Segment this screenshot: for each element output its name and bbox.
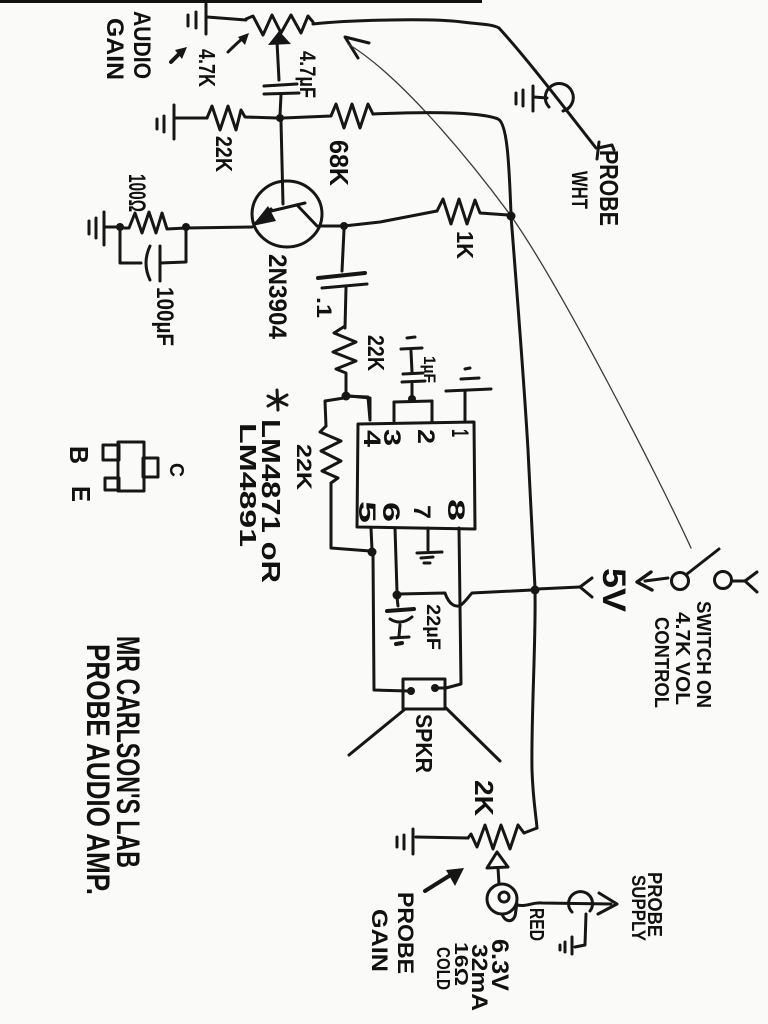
wire J6 to 22K feedback (325, 398, 344, 426)
transistor package TO92 outline (103, 442, 158, 491)
hook tail to ground (575, 914, 586, 947)
svg-text:3: 3 (378, 429, 405, 446)
connector hook H1 probe wht (545, 84, 573, 111)
resistor R4 100ohm (120, 212, 186, 233)
svg-text:2K: 2K (469, 780, 499, 816)
node J5 bus top (507, 212, 516, 221)
resistor R6 22K vertical (333, 326, 356, 393)
wiper arrow of 2K pot (487, 852, 508, 868)
wire 68K to bus corner (373, 113, 511, 214)
potentiometer R1 4.7K (246, 15, 313, 35)
svg-text:E: E (66, 486, 96, 502)
capacitor C1 4.7uF (264, 84, 299, 115)
ground G8 below 22uF (391, 637, 409, 644)
wire emitter (186, 227, 252, 228)
wire 22K to J7 (331, 483, 370, 551)
wire pot to probe (313, 20, 499, 28)
node B base node (276, 114, 284, 122)
fork connector supply (745, 572, 757, 592)
pin 8 lead to speaker (438, 528, 461, 688)
svg-text:AUDIO: AUDIO (128, 11, 155, 79)
svg-text:RED: RED (525, 908, 547, 941)
svg-text:22K: 22K (363, 335, 389, 371)
svg-text:100Ω: 100Ω (123, 174, 150, 212)
node J7 pin5 junction (368, 548, 377, 557)
svg-text:LM4891: LM4891 (235, 423, 261, 547)
svg-text:4.7K: 4.7K (194, 49, 220, 87)
wire J10 to 5V fork (537, 587, 580, 589)
IC U1 LM4871 body (357, 422, 475, 529)
node emitter-left (116, 223, 124, 231)
wire J6 to pin4 (346, 396, 370, 420)
transistor Q1 2N3904 (252, 121, 322, 247)
svg-text:1: 1 (446, 429, 473, 437)
svg-text:GAIN: GAIN (101, 18, 128, 80)
wire to probe supply arrow (517, 903, 611, 906)
node J10 bus (531, 586, 540, 595)
pin 4 lead (349, 396, 370, 420)
node J8 (408, 395, 416, 403)
svg-text:100µF: 100µF (151, 287, 178, 346)
switch lever (687, 549, 719, 574)
svg-text:22K: 22K (211, 136, 237, 172)
wire pin3-pin2 bridge (394, 401, 432, 402)
svg-text:GAIN: GAIN (367, 909, 392, 972)
svg-text:5: 5 (353, 501, 380, 523)
svg-text:7: 7 (408, 505, 435, 519)
big annotation arrowhead to pot (345, 37, 369, 58)
wire bus corner to 2K pot (524, 828, 537, 833)
capacitor C2 100uF (120, 231, 186, 281)
arrowhead probe supply (598, 893, 617, 914)
potentiometer R8 2K (468, 825, 524, 849)
svg-text:2: 2 (412, 429, 439, 444)
node emitter-right (182, 223, 190, 231)
wire pin6 to bus with hop (399, 590, 532, 606)
pin 7 lead (427, 528, 430, 550)
wire contactB to fork (732, 580, 745, 583)
ground G6 pin1 (446, 368, 491, 391)
resistor R5 1K (437, 199, 508, 224)
svg-text:SWITCH ON: SWITCH ON (692, 601, 714, 708)
svg-text:4.7K VOL: 4.7K VOL (671, 612, 693, 705)
node J9 pin6 junction (393, 591, 402, 600)
svg-text:PROBE AUDIO AMP.: PROBE AUDIO AMP. (80, 644, 116, 895)
node J6 (342, 392, 351, 401)
pin 2 lead (431, 401, 434, 421)
resistor R2 22K base (207, 106, 277, 130)
ground G10 supply shield (560, 937, 572, 954)
switch contact A (672, 573, 689, 590)
ground G1 audio-gain pot (188, 4, 246, 34)
probe tip fork (597, 142, 599, 159)
jack tail wire (502, 904, 517, 921)
svg-text:PROBE: PROBE (393, 892, 418, 974)
svg-text:.1: .1 (312, 297, 335, 318)
svg-text:SPKR: SPKR (411, 714, 437, 773)
svg-text:PROBE: PROBE (594, 150, 624, 226)
wire diagonal to probe tip (499, 28, 596, 148)
bus wire down right side (511, 216, 535, 588)
jack terminal circle (487, 884, 517, 914)
capacitor C3 0.1 (318, 230, 367, 328)
ground G5 above 1uF (401, 337, 422, 349)
svg-text:4.7µF: 4.7µF (295, 51, 320, 98)
arrow probe gain (425, 868, 464, 891)
svg-text:68K: 68K (324, 140, 354, 186)
svg-text:22K: 22K (292, 444, 315, 490)
pin 6 lead (395, 528, 397, 592)
pin 3 lead (393, 402, 396, 421)
emitter arrow of Q1 (252, 206, 276, 226)
svg-text:COLD: COLD (433, 947, 453, 990)
wiper arrow of pot (268, 31, 291, 45)
asterisk (268, 390, 287, 410)
ground G9 at 2K (397, 829, 413, 854)
wire 2K to ground (416, 837, 468, 838)
resistor R3 68K (283, 104, 373, 128)
svg-text:C: C (165, 463, 187, 477)
svg-text:8: 8 (442, 499, 469, 521)
ground G4 at 100ohm (89, 212, 117, 245)
ground G7 pin7 (417, 552, 442, 563)
svg-text:16Ω: 16Ω (451, 942, 471, 986)
svg-text:5V: 5V (596, 568, 632, 613)
node collector (340, 222, 348, 230)
svg-text:SUPPLY: SUPPLY (627, 875, 648, 941)
fork connector 5V (580, 578, 592, 597)
svg-text:CONTROL: CONTROL (650, 617, 672, 708)
thin annotation line to switch (348, 44, 691, 548)
svg-text:WHT: WHT (567, 171, 592, 209)
resistor R7 22K feedback (320, 426, 341, 483)
annotation arrow A1 (171, 47, 187, 62)
switch contact B (715, 572, 732, 589)
switch arrow (637, 572, 668, 590)
svg-text:2N3904: 2N3904 (263, 254, 291, 339)
svg-text:1µF: 1µF (420, 356, 439, 383)
svg-text:B: B (64, 446, 94, 464)
ground G3 at 22K (157, 105, 207, 139)
annotation arrow A2 (228, 33, 249, 52)
svg-text:1K: 1K (452, 231, 478, 259)
capacitor C5 22uF (387, 597, 414, 636)
ground G2 probe shield (516, 86, 547, 111)
pin 1 lead (464, 392, 467, 421)
speaker box SPKR (403, 679, 445, 709)
speaker cone lines (349, 710, 404, 755)
pin 5 lead to speaker (371, 528, 372, 550)
capacitor C4 1uF (402, 351, 425, 399)
svg-text:22µF: 22µF (422, 604, 443, 650)
wire collector to 1K (319, 211, 437, 226)
connector hook H2 supply (569, 892, 593, 912)
svg-text:6: 6 (377, 502, 404, 522)
